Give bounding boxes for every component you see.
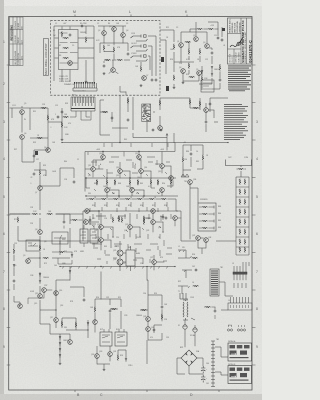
wire mid bottom drop [147,267,148,296]
transistor Q235 [68,340,73,345]
bottom mid-right cluster wires [140,295,162,340]
sub-board rungs [60,33,78,63]
resistor R211 [61,122,63,128]
resistor R106 [103,45,105,51]
resistor R110 [140,66,142,72]
diode CR204 [39,280,41,284]
capacitor C102 [80,25,83,28]
resistor R251 [118,216,120,222]
supply rail upper [62,142,228,144]
capacitor C212 [190,152,193,155]
ground [61,138,64,141]
resistor R225 [125,198,131,200]
capacitor C204 [61,110,64,113]
resistor R209 [47,115,49,121]
resistor R258 [208,28,214,30]
wire top right series [190,29,218,32]
resistor R263 [192,257,198,259]
resistor R244 [111,308,117,310]
resistor R246 [141,309,147,311]
transistor Q105 [111,68,116,73]
left chain wires [18,162,74,310]
lower-left sub cluster [40,310,88,338]
core mid wires [86,187,178,196]
resistor R233 [32,213,38,215]
resistor R252 [143,216,145,222]
ground [140,84,143,87]
resistor R224 [113,198,119,200]
transistor Q241 [108,352,113,357]
resistor R231 [143,219,145,225]
series resistors top right [197,28,203,30]
resistor R207 [189,76,195,78]
ground [85,80,88,83]
resistor R248 [63,116,69,118]
relay box K1 [100,332,112,346]
resistor R217 [193,107,199,109]
resistor R221 [170,179,172,185]
resistor R255 [137,179,139,185]
wire bracket to ladder [237,169,247,177]
wire lower left extra [28,290,52,304]
bridge wires [177,358,203,374]
connector J101 pin header [73,83,97,91]
capacitor C210 [33,172,36,175]
output pin stubs [243,262,249,266]
inset box 2 (switch detail) [228,366,252,384]
transistor Q220 [151,209,156,214]
transistor Q221 [84,220,89,225]
transistor Q102 [102,31,107,36]
label text cluster [59,76,71,83]
upper bracket [226,160,252,168]
ground [182,81,185,84]
output cell 7 [236,239,249,247]
capacitor C226 [159,129,162,132]
transistor Q233 [54,291,59,296]
transistor Q211 [137,155,142,160]
capacitor C220 [219,78,222,81]
resistor R213 [127,98,129,104]
resistor R101 [63,37,69,39]
labels lower left [50,317,69,342]
capacitor C221 [89,218,92,221]
relay internals [102,329,125,342]
transistor Q201 [179,43,184,48]
resistor R107 [113,47,115,53]
transistor Q232 [38,294,43,299]
diode CR209 [59,354,61,358]
capacitor C214 [161,305,164,308]
resistor R206 [173,75,175,81]
wires mid field [100,97,228,135]
transistor Q213 [118,169,123,174]
connector pin numbers [74,91,86,93]
main vertical bus from back panel [120,86,126,143]
wire output stage mid [190,184,198,239]
fuse F1 [183,325,187,329]
resistor R261 [205,306,211,308]
resistor R243 [94,307,96,313]
core wires upper [85,152,176,192]
parts list notes text [224,104,248,140]
resistor R104 [61,31,63,37]
capacitor C218 [56,116,59,119]
resistor R202 [173,44,175,50]
diode CR206 [59,336,61,340]
wire to bottom border [146,340,148,364]
connector pin tip dots [74,82,95,84]
core lower wires [88,211,163,237]
capacitor C201 [216,37,219,40]
transistor Q205 [197,71,202,76]
transistor Q227 [152,260,157,265]
transistor Q206 [20,110,25,115]
resistor chain bus [86,198,176,200]
resistor R250 [219,65,221,71]
wires upper mid box [98,26,128,53]
wires input stage bottom [174,70,212,86]
wire cluster 7B [52,252,72,264]
diode CR205 [87,322,89,326]
resistor R240 [202,155,204,161]
resistor R218 [106,179,108,185]
wire lower-left tail [50,334,70,362]
core density strokes [88,160,181,264]
transistor Q246 [42,288,47,293]
back panel circuitry label [44,39,49,76]
resistor R260 [72,219,78,221]
transistor Q243 [146,327,151,332]
resistor R223 [101,198,107,200]
capacitor C103 [127,52,130,55]
transistor Q218 [160,188,165,193]
ladder row 4 [199,227,214,230]
transistor Q242 [146,317,151,322]
diode ladder lower left [59,334,61,358]
diode CR213 [71,254,73,258]
left chain labels [23,175,62,295]
resistor R203 [188,49,190,55]
relay rect input stage [201,80,214,92]
arrow junction [166,134,168,138]
output cell 1 [236,179,249,187]
diode CR203 [39,273,41,277]
resistor R237 [61,321,63,327]
filter capacitor C216 [201,366,207,374]
capacitor C215 [153,328,156,331]
junction dots core [85,142,144,267]
wires input stage lower [174,42,212,73]
transistor Q234 [54,318,59,323]
output bus wires [176,211,206,254]
capacitor C106 [155,78,158,81]
relay box K2 [115,332,127,346]
dense terminal strip [210,269,219,296]
output stage wires top [183,145,203,177]
transistor Q204 [181,69,186,74]
transistor Q212 [91,167,96,172]
capacitor C202 [221,38,224,41]
resistor R236 [43,257,49,259]
transistor Q229 [38,186,43,191]
capacitor C208 [209,102,212,105]
transistor Q247 [169,176,174,181]
transistor Q248 [173,216,178,221]
capacitor C229 [194,269,197,272]
capacitor C203 [211,51,214,54]
resistor R227 [149,198,155,200]
ground bus hatched [60,267,175,269]
labels lower right bits [178,246,195,284]
pot internals [54,235,66,244]
labels bottom mid-right [143,316,168,329]
resistor R214 [159,100,161,106]
title block company text [228,18,241,33]
resistor R234 [47,213,53,215]
transistor Q238 [204,238,209,243]
title block signature logo [230,37,243,47]
output cell 4 [236,209,249,217]
ladder row 3 [199,220,214,223]
resistor R239 [182,157,184,163]
transistor Q210 [101,155,106,160]
diode CR212 [13,264,15,268]
capacitor C209 [165,216,168,219]
resistor R238 [75,322,77,328]
labels core [88,153,157,261]
ground [103,72,106,75]
inset box 1 (switch detail) [228,343,252,361]
wire psu small parts [204,307,215,319]
transistor Q231 [26,259,31,264]
transistor Q215 [160,164,165,169]
transistor Q228 [99,238,104,243]
labels left mid [14,104,68,149]
capacitor C207 [127,118,130,121]
transistor Q237 [196,236,201,241]
resistor R219 [129,179,131,185]
transistor Q236 [188,180,193,185]
resistor R205 [188,63,190,69]
transistor Q106 [142,76,147,81]
zone tick marks left [7,65,11,365]
resistor R220 [150,179,152,185]
wire bus inside box [54,26,94,86]
vbe multiplier box [126,250,135,266]
resistor R253 [96,179,98,185]
capacitor C224 [63,220,66,223]
resistor R232 [39,170,41,176]
diode CR202 [211,73,213,77]
junction dots extra [39,142,228,331]
predriver ladder box [198,203,216,231]
resistor R201 [185,41,191,43]
border frame [9,17,252,391]
capacitor C225 [151,129,154,132]
transistor Q230 [38,230,43,235]
right lower bits [178,250,192,294]
border-side parts lower left [14,244,20,306]
transistor Q240 [95,354,100,359]
resistor R222 [89,198,95,200]
transistor Q208 [46,148,51,153]
ladder row 1 [199,206,214,209]
transistor Q103 [112,27,117,32]
capacitor C211 [73,180,76,183]
bottom mid lower wires [97,346,126,368]
transistor Q219 [85,209,90,214]
transistor Q214 [139,169,144,174]
sub-board box [59,30,79,70]
capacitor C105 [151,78,154,81]
bridge rectifier BR1 [181,350,197,366]
resistor R245 [117,355,119,361]
capacitor C101 [69,33,72,36]
output device column frame [236,177,249,255]
ground [173,86,176,89]
ladder row 2 [199,213,214,216]
resistor R105 [85,37,87,43]
zone ticks bottom [75,390,219,392]
resistor R210 [37,137,43,139]
resistor R215 [189,99,191,105]
diode CR214 [69,270,71,274]
thermal breaker [181,174,189,177]
relay rect internals [203,83,212,89]
power transformer T1 [180,293,188,320]
wires transformer to bridge [185,318,195,347]
resistor R216 [199,101,201,107]
transistor Q104 [121,33,126,38]
transistor Q222 [99,225,104,230]
diode CR210 [125,358,127,362]
resistor R102 [63,47,69,49]
small switch circles row [227,325,245,331]
resistor R212 [102,111,108,113]
transistor Q216 [105,188,110,193]
scattered small value labels [12,23,249,385]
resistor R249 [201,76,203,82]
resistor R204 [199,49,201,55]
zone tick marks right [252,65,256,365]
resistor R257 [13,248,15,254]
fuse F2 [193,328,197,332]
wires left mid [12,106,62,162]
switch internals [28,243,38,246]
output cell 3 [236,199,249,207]
wire stamp area [133,97,174,151]
diode CR208 [59,348,61,352]
transistor Q202 [194,37,199,42]
labels input stage [170,35,220,71]
wire from box to input stage [160,22,222,74]
opto box pair [80,229,88,243]
resistor R208 [41,107,47,109]
AC header J4 [228,297,252,310]
transistor Q209 [158,126,163,131]
capacitor C205 [33,154,36,157]
wire border to input jack [10,108,19,214]
pot box lower left [52,232,68,244]
resistor R103 [63,57,69,59]
transistor Q245 [18,304,23,309]
transistor Q224 [151,220,156,225]
phone jack J103 [131,45,148,52]
resistor R247 [161,314,163,320]
capacitor C213 [109,309,112,312]
output cell 2 [236,189,249,197]
resistor R235 [39,245,41,251]
resistor R226 [137,198,143,200]
transistor Q239 [93,320,98,325]
resistor R108 [105,59,111,61]
wire ladder to bus [216,240,236,242]
transistor Q101 [68,61,73,66]
zone numbers right [256,120,258,349]
wires lower mid box [104,51,130,74]
resistor R230 [121,217,123,223]
diode CR207 [59,342,61,346]
wire bus 7A [10,214,85,297]
dark label specks [35,28,225,155]
core extra stubs [86,143,172,264]
filter capacitor C217 [201,375,207,383]
title block [228,18,253,64]
zone ticks top [75,15,187,17]
wires around drivers [60,240,164,271]
wire right col [212,64,220,89]
stamp block U201 [142,104,151,122]
pin strip right of bridge [211,341,215,387]
labels bottom mid [90,307,119,356]
diode CR201 [211,66,213,70]
wires jack section [141,36,156,76]
capacitor C227 [214,309,217,312]
transistor Q203 [205,44,210,49]
capacitor C206 [111,116,114,119]
driver transistor Q225 [117,250,123,256]
output cell 8 [236,247,249,255]
output cell 6 [236,229,249,237]
transistor Q207 [20,135,25,140]
capacitor C228 [83,298,86,301]
resistor R228 [161,198,167,200]
P201 breakout stubs [70,111,91,120]
resistor R264 [193,285,199,287]
output cell 5 [236,219,249,227]
transistor Q223 [128,225,133,230]
ground [103,368,106,371]
feedback bus [83,199,178,241]
resistor R229 [112,217,114,223]
wire cluster 7C [64,214,82,229]
resistor R256 [157,179,159,185]
diode CR211 [201,70,203,74]
wires power section interconnect [215,282,233,375]
left mid connector J2 [71,97,95,111]
supply rail lower [85,143,175,152]
right mid transistor Q244 [204,108,209,113]
resistor R254 [114,179,116,185]
back panel dashed enclosure [51,21,161,96]
notes block [228,66,251,92]
connector J3 pins [233,266,247,288]
capacitor C219 [205,120,208,123]
bottom mid cluster wires [95,272,121,333]
capacitor C222 [162,215,165,218]
resistor R259 [59,251,65,253]
